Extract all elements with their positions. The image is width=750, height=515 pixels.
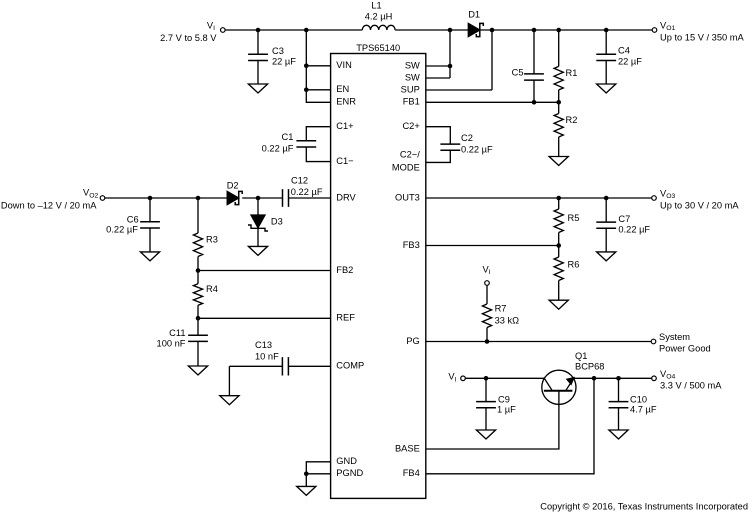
svg-text:TPS65140: TPS65140 xyxy=(356,43,400,53)
svg-text:COMP: COMP xyxy=(336,361,364,371)
svg-text:FB2: FB2 xyxy=(336,265,353,275)
svg-text:3.3 V / 500 mA: 3.3 V / 500 mA xyxy=(660,381,722,391)
svg-text:C4: C4 xyxy=(618,45,630,55)
svg-text:C10: C10 xyxy=(630,395,647,405)
svg-text:0.22 µF: 0.22 µF xyxy=(262,144,294,154)
svg-text:C5: C5 xyxy=(512,68,524,78)
svg-text:22 µF: 22 µF xyxy=(272,56,296,66)
svg-text:BASE: BASE xyxy=(395,443,420,453)
svg-text:EN: EN xyxy=(336,84,349,94)
svg-text:D1: D1 xyxy=(468,9,480,19)
svg-text:C2−/: C2−/ xyxy=(400,149,420,159)
svg-text:VIN: VIN xyxy=(336,60,352,70)
svg-text:PG: PG xyxy=(406,336,419,346)
svg-text:D2: D2 xyxy=(227,181,239,191)
svg-text:100 nF: 100 nF xyxy=(157,338,186,348)
svg-text:SW: SW xyxy=(405,60,420,70)
svg-text:DRV: DRV xyxy=(336,192,356,202)
svg-text:0.22 µF: 0.22 µF xyxy=(461,145,493,155)
svg-text:FB4: FB4 xyxy=(403,468,420,478)
svg-text:FB3: FB3 xyxy=(403,240,420,250)
svg-text:0.22 µF: 0.22 µF xyxy=(291,187,323,197)
svg-text:R1: R1 xyxy=(566,68,578,78)
svg-text:SUP: SUP xyxy=(401,84,420,94)
svg-text:4.2 µH: 4.2 µH xyxy=(365,11,393,21)
svg-text:SW: SW xyxy=(405,72,420,82)
svg-text:MODE: MODE xyxy=(392,163,420,173)
svg-text:Up to 15 V / 350 mA: Up to 15 V / 350 mA xyxy=(660,33,745,43)
svg-text:C1: C1 xyxy=(282,132,294,142)
svg-text:OUT3: OUT3 xyxy=(395,192,420,202)
svg-text:C1+: C1+ xyxy=(336,121,353,131)
svg-text:GND: GND xyxy=(336,456,357,466)
svg-text:REF: REF xyxy=(336,313,355,323)
svg-text:C7: C7 xyxy=(618,214,630,224)
svg-text:C11: C11 xyxy=(169,328,185,338)
svg-text:ENR: ENR xyxy=(336,97,356,107)
svg-text:BCP68: BCP68 xyxy=(575,361,604,371)
svg-text:R7: R7 xyxy=(495,304,507,314)
svg-text:R4: R4 xyxy=(206,284,218,294)
svg-text:Down to –12 V / 20 mA: Down to –12 V / 20 mA xyxy=(1,201,97,211)
svg-text:C1−: C1− xyxy=(336,156,353,166)
svg-text:System: System xyxy=(659,332,690,342)
svg-text:C2: C2 xyxy=(461,133,473,143)
svg-text:C13: C13 xyxy=(255,340,272,350)
svg-text:R2: R2 xyxy=(566,115,578,125)
svg-text:22 µF: 22 µF xyxy=(618,56,642,66)
svg-text:C2+: C2+ xyxy=(402,121,419,131)
svg-text:10 nF: 10 nF xyxy=(255,351,279,361)
svg-text:L1: L1 xyxy=(371,1,381,11)
svg-text:1 µF: 1 µF xyxy=(497,405,516,415)
svg-text:4.7 µF: 4.7 µF xyxy=(630,405,657,415)
svg-text:C6: C6 xyxy=(127,215,139,225)
svg-text:R3: R3 xyxy=(206,235,218,245)
svg-text:D3: D3 xyxy=(271,216,283,226)
svg-text:0.22 µF: 0.22 µF xyxy=(106,225,138,235)
svg-text:C12: C12 xyxy=(291,175,308,185)
svg-text:Q1: Q1 xyxy=(575,351,587,361)
svg-text:2.7 V to 5.8 V: 2.7 V to 5.8 V xyxy=(160,33,217,43)
svg-text:R6: R6 xyxy=(568,259,580,269)
svg-text:C9: C9 xyxy=(498,395,510,405)
svg-text:0.22 µF: 0.22 µF xyxy=(618,224,650,234)
svg-text:R5: R5 xyxy=(568,213,580,223)
svg-text:33 kΩ: 33 kΩ xyxy=(495,316,520,326)
svg-text:PGND: PGND xyxy=(336,468,363,478)
svg-text:C3: C3 xyxy=(272,46,284,56)
svg-text:Up to 30 V / 20 mA: Up to 30 V / 20 mA xyxy=(660,200,739,210)
svg-text:Copyright © 2016, Texas Instru: Copyright © 2016, Texas Instruments Inco… xyxy=(540,502,748,512)
svg-text:Power Good: Power Good xyxy=(659,344,711,354)
svg-text:FB1: FB1 xyxy=(403,97,420,107)
